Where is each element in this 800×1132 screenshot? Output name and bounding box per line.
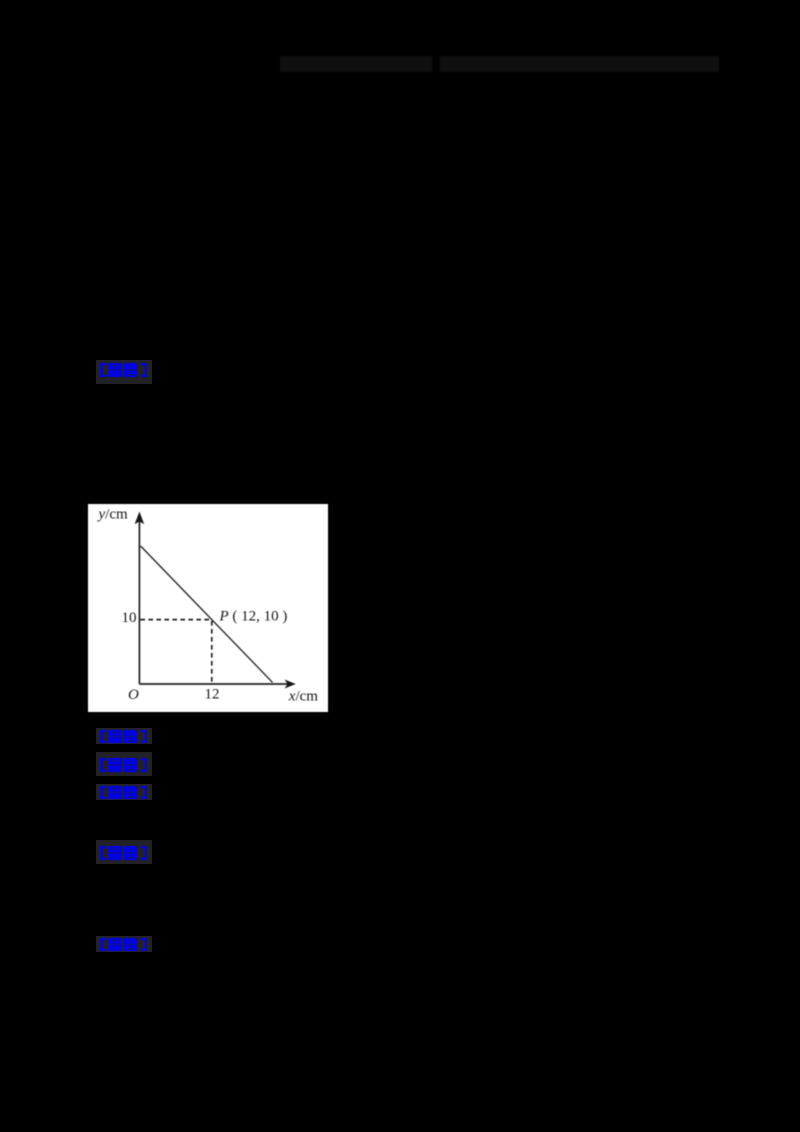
- label 4: 分析 highlight: [96, 784, 152, 800]
- x axis arrowhead: [285, 680, 296, 689]
- dashed horizontal to P: [140, 619, 211, 621]
- label 2: blue glyphs: [100, 729, 147, 744]
- svg-text:12: 12: [205, 687, 220, 703]
- main descending line: [141, 546, 273, 682]
- label 3: blue glyphs: [100, 757, 147, 773]
- label 5: 解答 highlight: [96, 840, 152, 864]
- y axis: [138, 519, 140, 684]
- title band left segment: [280, 56, 432, 72]
- svg-text:y/cm: y/cm: [97, 507, 128, 523]
- y axis arrowhead: [135, 512, 145, 525]
- label 4: blue glyphs: [100, 785, 147, 800]
- label 1: blue glyphs: [100, 362, 147, 378]
- label 6: blue glyphs: [100, 937, 147, 952]
- dashed vertical from P: [211, 621, 213, 684]
- label 2: 考点 highlight: [96, 728, 152, 744]
- svg-text:x/cm: x/cm: [288, 688, 318, 704]
- svg-text:P ( 12, 10 ): P ( 12, 10 ): [219, 609, 288, 625]
- svg-text:10: 10: [122, 610, 137, 626]
- label 5: blue glyphs: [100, 845, 147, 861]
- label 3: 专题 highlight: [96, 752, 152, 776]
- label 1: 答案 highlight: [96, 360, 152, 384]
- label 6: 点评 highlight: [96, 936, 152, 952]
- title band right segment: [440, 56, 719, 72]
- svg-text:O: O: [128, 687, 139, 703]
- figure (coordinate graph): [88, 504, 328, 712]
- x axis: [139, 683, 288, 685]
